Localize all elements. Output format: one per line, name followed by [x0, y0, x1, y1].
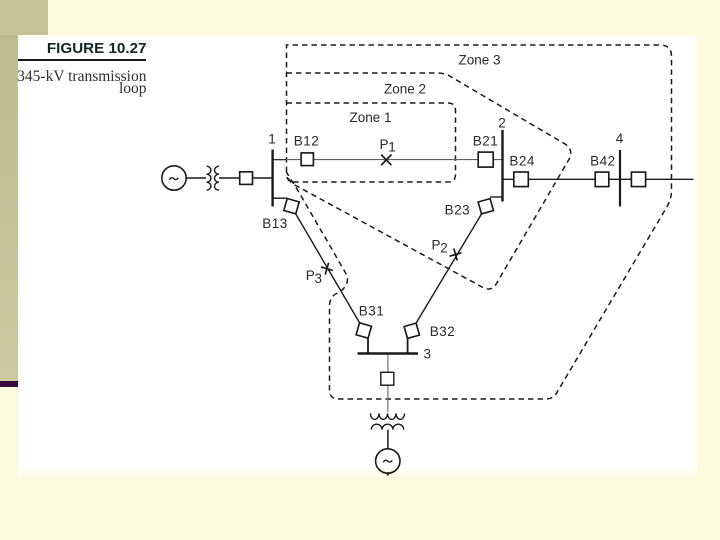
svg-text:P: P — [306, 268, 315, 283]
svg-text:2: 2 — [440, 240, 448, 255]
svg-text:3: 3 — [315, 271, 323, 286]
svg-text:Zone 2: Zone 2 — [384, 82, 426, 97]
svg-text:P: P — [432, 238, 441, 253]
svg-text:B23: B23 — [445, 203, 471, 218]
svg-text:P: P — [380, 137, 389, 152]
svg-text:Zone 1: Zone 1 — [349, 110, 391, 125]
svg-text:B21: B21 — [473, 134, 499, 149]
svg-text:Zone 3: Zone 3 — [458, 53, 500, 68]
svg-text:B42: B42 — [590, 154, 616, 169]
svg-text:B13: B13 — [262, 216, 288, 231]
svg-text:B24: B24 — [509, 154, 535, 169]
svg-text:1: 1 — [388, 139, 396, 154]
svg-text:2: 2 — [498, 116, 506, 131]
svg-text:B32: B32 — [430, 324, 456, 339]
svg-text:1: 1 — [268, 132, 276, 147]
svg-text:4: 4 — [616, 131, 624, 146]
svg-text:B12: B12 — [294, 134, 320, 149]
svg-text:B31: B31 — [359, 304, 385, 319]
svg-text:3: 3 — [424, 347, 432, 362]
